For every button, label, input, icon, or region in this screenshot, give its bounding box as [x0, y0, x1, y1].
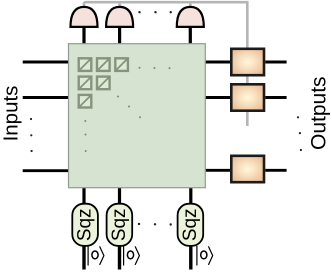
ellipsis: squeezer row	[138, 223, 172, 226]
wire: modulator M1 to output 1	[265, 61, 286, 64]
interferometer U box	[69, 44, 206, 188]
ellipsis: beamsplitter diagonal	[117, 96, 141, 119]
ellipsis: output channels	[297, 116, 302, 151]
squeezer Sqz2	[107, 204, 133, 246]
detector D2	[106, 7, 133, 27]
modulator M1	[231, 49, 264, 75]
detector D1	[71, 7, 98, 27]
wire: modulator M2 to output 2	[265, 96, 286, 99]
wire: input 3	[23, 169, 69, 172]
ellipsis: beamsplitter column 1	[84, 120, 86, 152]
svg-text:Sqz: Sqz	[75, 208, 96, 241]
ket |0> on Sqz1 input	[88, 246, 104, 266]
ellipsis: input channels	[30, 118, 33, 152]
wire: U to squeezer Sqz2	[118, 187, 121, 205]
squeezer Sqz3	[178, 204, 204, 246]
wire: vacuum input to Sqz2	[118, 246, 121, 270]
wire: gray stub to detector D2	[118, 2, 121, 8]
beamsplitter BS21	[79, 77, 92, 90]
svg-text:Outputs: Outputs	[308, 76, 331, 150]
wire: U to squeezer Sqz1	[82, 187, 85, 205]
wire: detector D1 to U	[82, 26, 85, 44]
beamsplitter BS11	[79, 58, 92, 71]
wire: U to modulator M2	[205, 96, 230, 99]
beamsplitter BS31	[79, 95, 92, 108]
ellipsis: detector row	[138, 11, 172, 13]
beamsplitter BS12	[97, 58, 110, 71]
beamsplitter BS22	[97, 77, 110, 90]
svg-text:Inputs: Inputs	[0, 86, 22, 142]
wire: vacuum input to Sqz1	[82, 246, 85, 270]
wire: gray feed-forward bus from detectors to output modulators	[84, 2, 247, 126]
modulator M3	[231, 156, 264, 182]
detector D3	[177, 7, 204, 27]
wire: detector D3 to U	[189, 26, 192, 44]
wire: U to modulator M1	[205, 61, 230, 64]
ket |0> on Sqz2 input	[124, 246, 140, 266]
svg-text:Sqz: Sqz	[180, 208, 201, 241]
modulator M2	[231, 84, 264, 110]
wire: input 2	[23, 96, 69, 99]
wire: gray stub to detector D3	[189, 2, 192, 8]
wire: vacuum input to Sqz3	[189, 246, 192, 270]
wire: U to squeezer Sqz3	[189, 187, 192, 205]
wire: modulator M3 to output 3	[265, 169, 286, 172]
svg-text:Sqz: Sqz	[109, 208, 130, 241]
wire: detector D2 to U	[118, 26, 121, 44]
wire: gray stub to detector D1	[83, 2, 86, 8]
ket |0> on Sqz3 input	[197, 246, 213, 266]
wire: input 1	[23, 61, 69, 64]
wire: U to modulator M3	[205, 169, 230, 172]
beamsplitter BS13	[115, 58, 128, 71]
squeezer Sqz1	[72, 204, 98, 246]
ellipsis: beamsplitter row 1	[139, 67, 171, 69]
